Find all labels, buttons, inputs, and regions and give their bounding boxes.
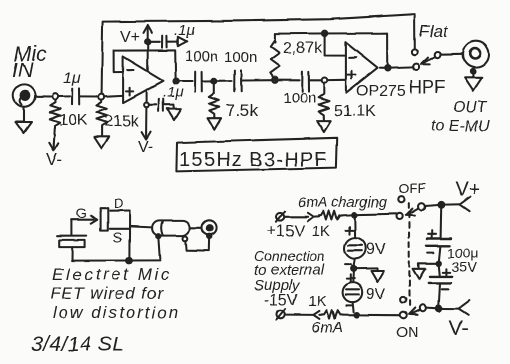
- svg-text:V-: V-: [46, 150, 62, 169]
- svg-text:155Hz B3-HPF: 155Hz B3-HPF: [179, 149, 328, 171]
- svg-text:FET wired for: FET wired for: [50, 284, 164, 303]
- svg-text:100n: 100n: [224, 49, 257, 66]
- svg-text:215k: 215k: [104, 113, 140, 130]
- svg-text:IN: IN: [12, 59, 34, 82]
- svg-text:6mA charging: 6mA charging: [298, 195, 387, 211]
- svg-text:.1μ: .1μ: [163, 84, 184, 101]
- svg-text:.1μ: .1μ: [174, 22, 195, 39]
- svg-text:OP275: OP275: [356, 83, 406, 100]
- svg-text:V+: V+: [120, 29, 140, 46]
- svg-text:ON: ON: [396, 324, 419, 341]
- svg-text:HPF: HPF: [409, 77, 445, 97]
- svg-text:OUT: OUT: [453, 99, 488, 116]
- svg-text:100n: 100n: [283, 90, 316, 107]
- svg-text:35V: 35V: [452, 259, 478, 275]
- svg-text:low distortion: low distortion: [53, 303, 180, 322]
- svg-text:V+: V+: [455, 179, 480, 201]
- svg-text:1K: 1K: [312, 223, 330, 240]
- svg-text:OFF: OFF: [398, 180, 426, 196]
- svg-text:to E-MU: to E-MU: [431, 118, 490, 135]
- svg-text:S: S: [113, 229, 122, 245]
- svg-text:6mA: 6mA: [312, 319, 343, 336]
- svg-text:3/4/14 SL: 3/4/14 SL: [31, 333, 125, 356]
- svg-text:2,87k: 2,87k: [283, 40, 323, 57]
- svg-text:Flat: Flat: [419, 22, 449, 41]
- svg-text:10K: 10K: [59, 112, 88, 129]
- svg-text:Electret Mic: Electret Mic: [52, 265, 172, 284]
- svg-text:1K: 1K: [308, 293, 326, 310]
- svg-text:G: G: [76, 205, 87, 221]
- svg-text:100n: 100n: [185, 48, 218, 65]
- svg-text:V-: V-: [138, 139, 153, 156]
- svg-text:1μ: 1μ: [63, 70, 81, 87]
- svg-text:7.5k: 7.5k: [226, 101, 259, 120]
- svg-text:51.1K: 51.1K: [334, 103, 376, 120]
- svg-text:-15V: -15V: [264, 292, 298, 309]
- svg-text:D: D: [114, 196, 123, 211]
- svg-text:+15V: +15V: [267, 223, 305, 240]
- svg-text:V-: V-: [449, 317, 469, 340]
- svg-text:9V: 9V: [366, 286, 386, 303]
- svg-text:9V: 9V: [366, 241, 386, 258]
